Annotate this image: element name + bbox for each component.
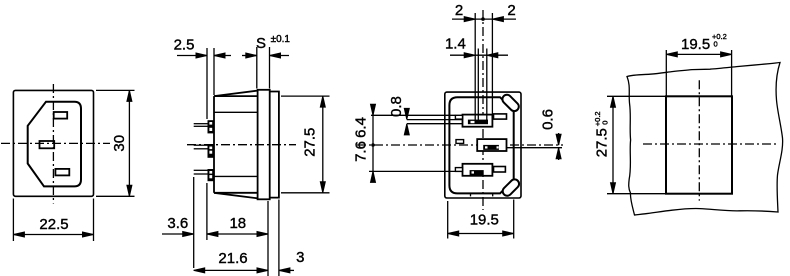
- svg-text:±0.1: ±0.1: [271, 34, 291, 45]
- svg-text:21.6: 21.6: [218, 250, 247, 267]
- svg-text:0.6: 0.6: [540, 109, 557, 130]
- svg-text:18: 18: [229, 215, 246, 232]
- svg-text:19.5: 19.5: [470, 212, 499, 229]
- svg-text:1.4: 1.4: [445, 35, 466, 52]
- svg-text:0: 0: [600, 121, 609, 125]
- svg-text:3: 3: [296, 249, 304, 266]
- svg-text:0: 0: [714, 40, 718, 49]
- svg-text:30: 30: [111, 135, 128, 152]
- svg-text:22.5: 22.5: [39, 216, 68, 233]
- svg-text:S: S: [256, 35, 266, 52]
- svg-text:0.8: 0.8: [388, 96, 405, 117]
- svg-text:2: 2: [455, 2, 463, 19]
- svg-text:19.5: 19.5: [681, 36, 710, 53]
- svg-text:7.6: 7.6: [353, 141, 370, 162]
- svg-text:2: 2: [507, 2, 515, 19]
- svg-text:6.4: 6.4: [353, 117, 370, 138]
- svg-text:27.5: 27.5: [593, 128, 610, 157]
- svg-text:2.5: 2.5: [174, 36, 195, 53]
- svg-text:3.6: 3.6: [167, 215, 188, 232]
- svg-text:27.5: 27.5: [302, 128, 319, 157]
